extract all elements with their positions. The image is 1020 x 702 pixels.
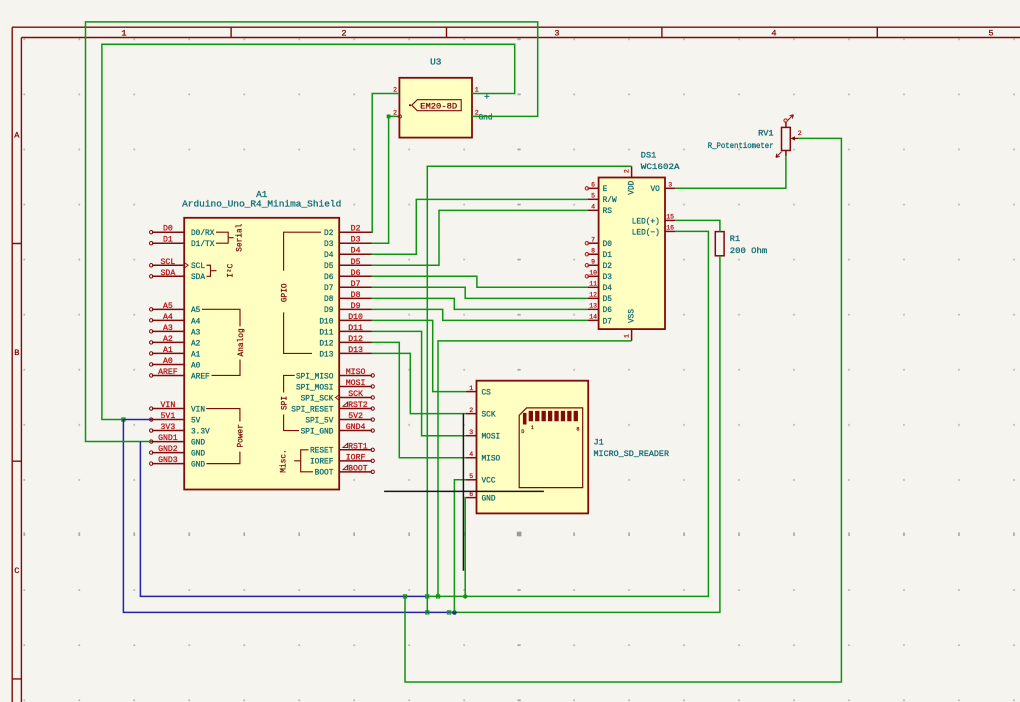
pin 5 R/W (DS1) (588, 198, 599, 200)
svg-text:A3: A3 (163, 324, 173, 333)
pin AREF (A1 left) (152, 374, 184, 376)
pin A4 (A1 left) (152, 319, 184, 321)
svg-text:RST1: RST1 (348, 442, 368, 451)
svg-text:RST2: RST2 (348, 401, 368, 410)
svg-text:D6: D6 (351, 269, 361, 278)
svg-text:D5: D5 (351, 258, 361, 267)
pin D9 (A1 right) (339, 308, 372, 310)
svg-text:11: 11 (589, 281, 597, 288)
svg-text:GND: GND (482, 496, 496, 504)
svg-text:D7: D7 (324, 285, 334, 293)
svg-text:2: 2 (341, 28, 346, 38)
svg-text:D9: D9 (324, 307, 334, 315)
svg-text:3: 3 (554, 28, 559, 38)
pin VIN (A1 left) (152, 408, 184, 410)
svg-text:IOREF: IOREF (310, 459, 334, 467)
wire end square VSS (436, 595, 439, 598)
pin D6 (A1 right) (339, 275, 372, 277)
pin 4 RS (DS1) (588, 209, 599, 211)
pin GND1 (A1 left) (152, 441, 184, 443)
svg-text:D2: D2 (603, 263, 613, 271)
svg-text:SPI_MOSI: SPI_MOSI (296, 384, 333, 392)
svg-text:16: 16 (666, 225, 674, 232)
svg-text:WC1602A: WC1602A (641, 162, 681, 172)
pin D10 (A1 right) (339, 319, 372, 321)
U3 label EM20-8D flag (409, 100, 461, 112)
svg-text:VO: VO (650, 186, 660, 194)
pin A3 (A1 left) (152, 330, 184, 332)
svg-text:GPIO: GPIO (281, 283, 289, 302)
svg-text:D7: D7 (351, 280, 361, 289)
svg-text:A3: A3 (191, 329, 201, 337)
pin GND2 (A1 left) (152, 452, 184, 454)
pin D8 (A1 right) (339, 297, 372, 299)
svg-text:U3: U3 (430, 56, 442, 67)
svg-text:5V1: 5V1 (161, 412, 176, 421)
svg-text:D: D (521, 429, 524, 435)
svg-text:9: 9 (591, 259, 595, 266)
pin A0 (A1 left) (152, 363, 184, 365)
wire GND blue branch (140, 442, 426, 597)
pin 2 SCK (J1) (466, 413, 477, 415)
svg-text:1: 1 (121, 28, 126, 38)
svg-text:D13: D13 (348, 346, 363, 355)
U3 pin numbers (393, 87, 479, 117)
svg-text:SPI_SCK: SPI_SCK (301, 395, 334, 403)
svg-text:D12: D12 (348, 335, 363, 344)
svg-text:A1: A1 (163, 346, 173, 355)
svg-text:Analog: Analog (238, 328, 246, 356)
RV1 dangling arrow bottom (776, 152, 782, 158)
svg-text:1: 1 (475, 87, 479, 94)
svg-text:SDA: SDA (161, 269, 176, 278)
svg-text:BOOT: BOOT (348, 464, 368, 473)
pin 1 VSS (DS1 bottom) (623, 309, 636, 341)
group bracket Analog (202, 309, 246, 375)
component DS1 WC1602A body (599, 178, 665, 330)
junction square at U3 corner (387, 115, 391, 119)
wire D9 to LCD D7 (372, 309, 588, 320)
svg-text:SPI_GND: SPI_GND (301, 428, 334, 436)
pin 16 LED(−) (DS1) (665, 230, 675, 232)
svg-text:1: 1 (469, 385, 473, 392)
svg-text:MOSI: MOSI (482, 434, 501, 442)
pin D0 (A1 left) (152, 231, 184, 233)
svg-text:D8: D8 (351, 291, 361, 300)
pin D11 (A1 right) (339, 330, 372, 332)
wire end square VDD (426, 611, 429, 614)
svg-text:D0: D0 (603, 241, 613, 249)
svg-text:GND: GND (191, 451, 205, 459)
wire D3 to U3 pin2b (372, 116, 398, 243)
svg-text:VCC: VCC (482, 478, 496, 486)
svg-text:MISO: MISO (482, 456, 501, 464)
svg-text:EM20-8D: EM20-8D (420, 102, 457, 111)
pin D5 (A1 right) (339, 264, 372, 266)
svg-text:GND2: GND2 (158, 445, 178, 454)
svg-text:13: 13 (589, 303, 597, 310)
pin SCL (A1 left) (152, 264, 184, 266)
RV1 dangling arrow top (788, 115, 794, 121)
svg-text:10: 10 (589, 270, 597, 277)
svg-text:D11: D11 (319, 329, 333, 337)
svg-text:SPI_MISO: SPI_MISO (296, 373, 334, 381)
pin A1 (A1 left) (152, 352, 184, 354)
group bracket Power (206, 409, 246, 464)
wire end square 5V corner (122, 418, 125, 421)
svg-text:RV1: RV1 (758, 128, 773, 138)
svg-text:14: 14 (589, 314, 597, 321)
pin D3 (A1 right) (339, 242, 372, 244)
svg-text:A: A (14, 131, 20, 141)
svg-text:4: 4 (771, 28, 776, 38)
svg-text:IORF: IORF (346, 453, 366, 462)
svg-text:D1: D1 (603, 252, 613, 260)
pin 11 D4 (DS1) (588, 286, 599, 288)
svg-text:200 Ohm: 200 Ohm (730, 246, 767, 256)
group bracket SPI (281, 375, 299, 430)
pin 3 MOSI (J1) (466, 435, 477, 437)
svg-text:AREF: AREF (158, 368, 178, 377)
pin 6 E (DS1) (588, 187, 599, 189)
svg-text:CS: CS (482, 390, 492, 398)
svg-text:5V2: 5V2 (348, 412, 363, 421)
group bracket Serial (216, 223, 244, 251)
svg-text:8: 8 (591, 248, 595, 255)
wire end square 5V bus (447, 611, 450, 614)
svg-text:5: 5 (591, 193, 595, 200)
pin 8 D1 (DS1) (588, 253, 599, 255)
U3 pin names + / Gnd (479, 91, 493, 122)
pin 5V2 (A1 SPI) (339, 419, 372, 421)
svg-text:GND: GND (191, 439, 205, 447)
pin D4 (A1 right) (339, 253, 372, 255)
wire VCC down (454, 480, 466, 613)
svg-text:4: 4 (469, 451, 473, 458)
svg-text:SCL: SCL (161, 258, 176, 267)
wire R/W to D4 (372, 199, 588, 254)
svg-text:4: 4 (591, 204, 595, 211)
A1 right pin names (291, 230, 333, 478)
svg-text:2: 2 (393, 87, 397, 94)
svg-text:D11: D11 (348, 324, 363, 333)
svg-text:A4: A4 (191, 318, 201, 326)
group bracket I2C (207, 263, 236, 277)
svg-text:2: 2 (623, 169, 630, 173)
svg-text:RS: RS (603, 208, 613, 216)
svg-text:D0/RX: D0/RX (191, 230, 215, 238)
svg-text:D4: D4 (324, 252, 334, 260)
wire 5V bus green to R1 (449, 256, 720, 613)
svg-text:SDA: SDA (191, 274, 205, 282)
wire D10 to CS (372, 320, 466, 391)
svg-text:D0: D0 (163, 225, 173, 234)
svg-text:BOOT: BOOT (315, 470, 334, 478)
svg-text:MISO: MISO (346, 368, 366, 377)
RV1 unconnected circle pin1 (784, 119, 787, 122)
svg-text:D2: D2 (351, 225, 361, 234)
wire D7 to LCD D5 (372, 287, 588, 298)
wire black SCK branch (462, 414, 464, 571)
svg-text:SPI_5V: SPI_5V (305, 417, 333, 425)
pin GND3 (A1 left) (152, 463, 184, 465)
pin BOOT (A1 misc) (339, 471, 372, 473)
pin RST2 (A1 SPI) (339, 408, 372, 410)
svg-text:LED(+): LED(+) (632, 218, 660, 226)
wire end square (426, 595, 429, 598)
pin 2 VDD (DS1 top) (623, 166, 636, 194)
pin GND4 (A1 SPI) (339, 430, 372, 432)
svg-text:7: 7 (591, 237, 595, 244)
clock wedge SPI_SCK (335, 395, 338, 400)
pin SDA (A1 left) (152, 275, 184, 277)
svg-text:A4: A4 (163, 313, 173, 322)
junction GND (463, 594, 467, 598)
pin SCK (A1 SPI) (339, 397, 372, 399)
svg-text:15: 15 (666, 214, 674, 221)
pin 15 LED(+) (DS1) (665, 219, 675, 221)
wire VSS to GND bus (438, 341, 632, 597)
svg-text:3: 3 (668, 182, 672, 189)
svg-text:8: 8 (576, 427, 579, 433)
svg-text:SCK: SCK (348, 390, 363, 399)
svg-text:D13: D13 (319, 351, 333, 359)
svg-text:D4: D4 (351, 247, 361, 256)
wire D13 to SCK (372, 353, 466, 413)
svg-text:D4: D4 (603, 285, 613, 293)
wire D6 to LCD D4 (372, 276, 588, 287)
svg-text:SCL: SCL (191, 263, 205, 271)
resistor R1 body (715, 232, 724, 256)
wire LED+ to R1 (675, 220, 720, 231)
potentiometer RV1 body (782, 122, 799, 157)
svg-text:D3: D3 (603, 274, 613, 282)
junction 5V (452, 610, 457, 615)
svg-text:R_Potentiometer: R_Potentiometer (708, 142, 774, 151)
svg-text:R/W: R/W (603, 197, 617, 205)
svg-text:RESET: RESET (310, 448, 334, 456)
pin D7 (A1 right) (339, 286, 372, 288)
svg-text:2: 2 (393, 109, 397, 116)
svg-text:E: E (603, 186, 608, 194)
svg-text:GND3: GND3 (158, 456, 178, 465)
wire black horizontal (384, 490, 544, 492)
pin 1 CS (J1) (466, 391, 477, 393)
svg-text:J1: J1 (594, 438, 604, 448)
wire U3 pin1 + to 5V corner (102, 44, 515, 419)
svg-text:A1: A1 (191, 351, 201, 359)
svg-text:Serial: Serial (236, 223, 244, 251)
pin 14 D7 (DS1) (588, 319, 599, 321)
clock wedge SCL (185, 263, 188, 268)
svg-text:6: 6 (591, 182, 595, 189)
pin 6 GND (J1) (466, 497, 477, 499)
svg-text:D1/TX: D1/TX (191, 241, 215, 249)
svg-text:D7: D7 (603, 318, 613, 326)
svg-text:12: 12 (589, 292, 597, 299)
wire 5V1 pin blue (123, 420, 454, 613)
svg-text:D10: D10 (319, 318, 333, 326)
svg-text:A1: A1 (256, 189, 268, 200)
svg-text:SCK: SCK (482, 412, 496, 420)
wire D2 to U3 pin2 (372, 94, 400, 233)
pin D1 (A1 left) (152, 242, 184, 244)
pin D2 (A1 right) (339, 231, 372, 233)
svg-text:D1: D1 (163, 236, 173, 245)
A1 left pin names (191, 230, 215, 469)
svg-text:MOSI: MOSI (346, 379, 366, 388)
svg-text:Misc.: Misc. (280, 449, 288, 472)
pin 5V1 (A1 left) (152, 419, 184, 421)
pin RST1 (A1 misc) (339, 449, 372, 451)
wire U3 Gnd to GND1 (86, 22, 538, 442)
svg-text:A2: A2 (191, 340, 201, 348)
J1 sd-card glyph (519, 408, 583, 488)
svg-text:1: 1 (531, 425, 534, 431)
svg-text:GND4: GND4 (346, 423, 366, 432)
svg-text:A2: A2 (163, 335, 173, 344)
svg-text:LED(−): LED(−) (632, 229, 660, 237)
svg-text:2: 2 (469, 407, 473, 414)
svg-text:5V: 5V (191, 417, 201, 425)
wire SD GND down (464, 498, 467, 597)
pin 3V3 (A1 left) (152, 430, 184, 432)
wire GND bus green to LED- (427, 231, 708, 596)
svg-text:D3: D3 (324, 241, 334, 249)
svg-text:GND1: GND1 (158, 434, 178, 443)
group bracket GPIO (281, 232, 321, 353)
svg-text:MICRO_SD_READER: MICRO_SD_READER (594, 449, 670, 459)
svg-text:2: 2 (798, 130, 802, 137)
svg-text:Arduino_Uno_R4_Minima_Shield: Arduino_Uno_R4_Minima_Shield (182, 200, 341, 210)
svg-text:D10: D10 (348, 313, 363, 322)
wire RV1 wiper loop (405, 138, 841, 682)
svg-text:5: 5 (988, 28, 993, 38)
svg-text:3: 3 (469, 429, 473, 436)
svg-text:D2: D2 (324, 230, 334, 238)
svg-text:1: 1 (623, 334, 630, 338)
svg-text:A0: A0 (163, 357, 173, 366)
svg-text:VDD: VDD (629, 180, 637, 194)
svg-text:R1: R1 (730, 234, 740, 244)
pin MISO (A1 SPI) (339, 374, 372, 376)
wire RS to D5 (372, 210, 588, 265)
wire VDD down to 5V bus (427, 166, 631, 612)
svg-text:B: B (14, 348, 19, 358)
svg-text:SPI: SPI (281, 396, 289, 410)
svg-text:D9: D9 (351, 302, 361, 311)
pin 10 D3 (DS1) (588, 275, 599, 277)
pin A5 (A1 left) (152, 308, 184, 310)
svg-text:DS1: DS1 (641, 151, 656, 161)
component J1 MICRO_SD_READER body (477, 381, 589, 514)
svg-text:D3: D3 (351, 236, 361, 245)
svg-text:SPI_RESET: SPI_RESET (291, 406, 333, 414)
svg-text:I²C: I²C (227, 263, 236, 277)
svg-text:D6: D6 (603, 307, 613, 315)
component A1 Arduino_Uno_R4_Minima_Shield body (184, 218, 339, 490)
pin IORF (A1 misc) (339, 460, 372, 462)
pin 5 VCC (J1) (466, 479, 477, 481)
pin D13 (A1 right) (339, 352, 372, 354)
svg-text:A0: A0 (191, 362, 201, 370)
svg-text:3V3: 3V3 (161, 423, 176, 432)
svg-text:Power: Power (238, 424, 246, 447)
svg-text:A5: A5 (191, 307, 201, 315)
svg-text:VSS: VSS (629, 309, 637, 323)
svg-text:5: 5 (469, 473, 473, 480)
pin 3 VO (DS1) (665, 187, 675, 189)
U3 unconnected pin circle (398, 115, 401, 118)
pin 13 D6 (DS1) (588, 308, 599, 310)
svg-text:D5: D5 (603, 296, 613, 304)
svg-text:VIN: VIN (191, 406, 205, 414)
pin A2 (A1 left) (152, 341, 184, 343)
wire end square wiper loop (403, 595, 406, 598)
svg-text:D12: D12 (319, 340, 333, 348)
svg-text:A5: A5 (163, 302, 173, 311)
svg-text:D8: D8 (324, 296, 334, 304)
svg-text:C: C (14, 566, 19, 576)
svg-text:D5: D5 (324, 263, 334, 271)
svg-text:VIN: VIN (161, 401, 176, 410)
pin 7 D0 (DS1) (588, 242, 599, 244)
wire VO to RV1 (675, 156, 786, 188)
component U3 EM20-8D body (399, 78, 472, 138)
svg-text:GND: GND (191, 462, 205, 470)
pin MOSI (A1 SPI) (339, 385, 372, 387)
wire D8 to LCD D6 (372, 298, 588, 309)
wire D12 to MISO (372, 342, 466, 457)
svg-text:3.3V: 3.3V (191, 428, 210, 436)
pin D12 (A1 right) (339, 341, 372, 343)
pin 9 D2 (DS1) (588, 264, 599, 266)
pin 12 D5 (DS1) (588, 297, 599, 299)
svg-text:AREF: AREF (191, 373, 210, 381)
group bracket Misc (280, 449, 313, 472)
svg-text:D6: D6 (324, 274, 334, 282)
wire D11 to MOSI (372, 331, 466, 435)
pin 4 MISO (J1) (466, 457, 477, 459)
